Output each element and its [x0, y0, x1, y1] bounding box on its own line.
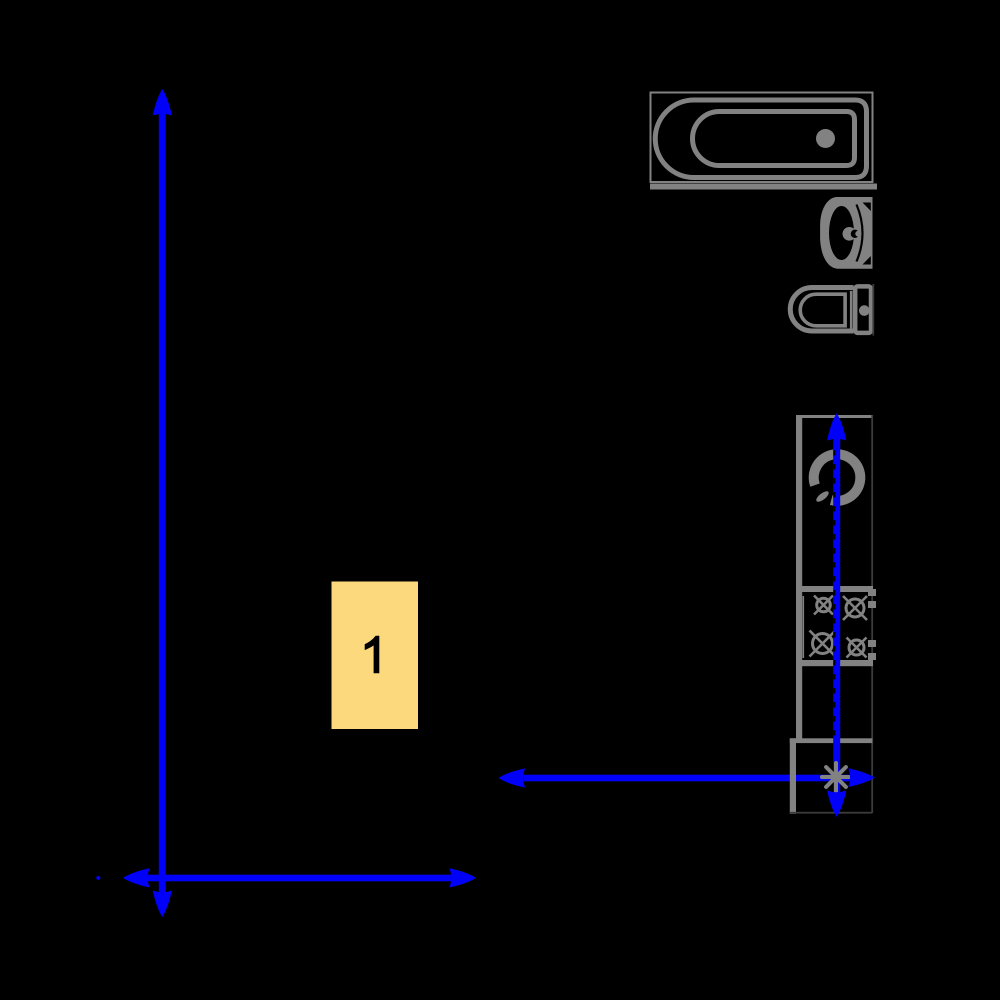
- kitchen counter column: [796, 415, 873, 743]
- axis dash marks on right arrow: [833, 450, 835, 737]
- digit 1: [365, 636, 380, 674]
- stove: [801, 586, 876, 666]
- right horizontal dimension arrow: [499, 768, 850, 787]
- bottom horizontal dimension arrow: [123, 868, 476, 887]
- counter right shadow edge: [871, 415, 873, 813]
- kitchen sink circle: [814, 454, 861, 501]
- room label 1: [332, 582, 419, 730]
- wall below bathtub: [650, 184, 877, 190]
- asterisk marker: [822, 763, 850, 791]
- arrowheads over asterisk: [827, 768, 875, 817]
- bathtub drain: [816, 129, 835, 148]
- cabinet bottom shadow edge: [790, 812, 873, 814]
- toilet: [790, 286, 871, 333]
- small blue dot: [96, 876, 100, 880]
- bathtub: [651, 93, 873, 183]
- bottom cabinet box: [790, 738, 873, 814]
- toilet tank shadow edge: [872, 284, 874, 336]
- sink tap dash: [815, 489, 831, 503]
- washbasin: [820, 197, 872, 269]
- toilet flush button: [859, 305, 870, 316]
- left vertical dimension arrow: [153, 89, 172, 917]
- right vertical dimension arrow: [827, 413, 846, 792]
